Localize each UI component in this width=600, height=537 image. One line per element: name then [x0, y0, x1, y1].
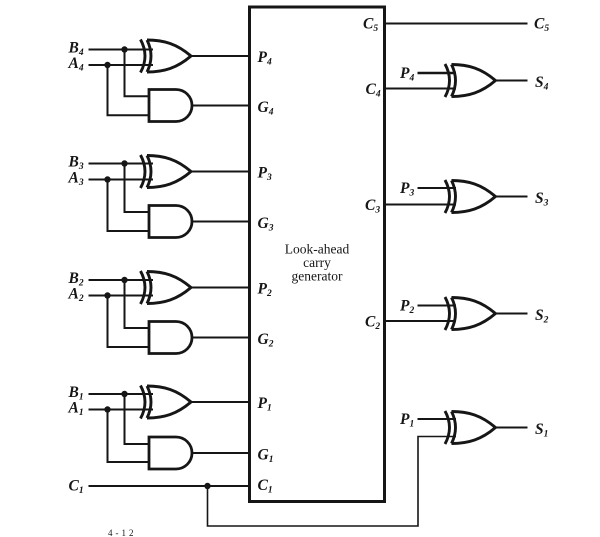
junction A4: [104, 62, 110, 68]
wire G1 to generator: [192, 452, 250, 454]
svg-text:C1: C1: [69, 478, 84, 497]
and gate (G4 = A4 and B4): [149, 90, 192, 122]
svg-text:S3: S3: [535, 190, 549, 209]
wire A1: [89, 409, 154, 411]
svg-text:C5: C5: [534, 16, 549, 35]
junction A2: [104, 292, 110, 298]
wire C2 to sum xor: [385, 320, 457, 322]
label: Look-ahead carry generator: [285, 242, 350, 284]
svg-text:P2: P2: [400, 298, 414, 317]
wire G4 to generator: [192, 105, 250, 107]
wire S1 output: [496, 427, 528, 429]
xor gate (S2 = P2 xor C2): [445, 297, 496, 330]
svg-text:P1: P1: [400, 411, 414, 430]
xor gate (S3 = P3 xor C3): [445, 180, 496, 213]
xor gate (P1 = A1 xor B1): [141, 386, 192, 419]
xor gate (S1 = P1 xor C1): [445, 411, 496, 444]
svg-text:P3: P3: [400, 180, 414, 199]
svg-text:S1: S1: [535, 421, 548, 440]
svg-text:generator: generator: [292, 269, 343, 284]
junction B3: [121, 160, 127, 166]
wire P3 stub to sum xor: [418, 187, 457, 189]
svg-text:G4: G4: [258, 99, 274, 118]
svg-text:4-12: 4-12: [108, 528, 137, 537]
svg-text:P3: P3: [258, 165, 272, 184]
svg-text:C3: C3: [365, 197, 380, 216]
wire P1 to generator: [191, 401, 250, 403]
wire A2: [89, 295, 154, 297]
xor gate (P3 = A3 xor B3): [141, 155, 192, 188]
and gate (G1 = A1 and B1): [149, 437, 192, 469]
svg-text:A3: A3: [68, 170, 84, 189]
wire A2 to AND2 input: [108, 296, 151, 348]
wire A3 to AND3 input: [108, 180, 151, 232]
wire S2 output: [496, 313, 528, 315]
svg-text:C2: C2: [365, 314, 380, 333]
svg-text:S2: S2: [535, 307, 549, 326]
junction B4: [121, 46, 127, 52]
xor gate (S4 = P4 xor C4): [445, 64, 496, 97]
svg-text:C5: C5: [363, 16, 378, 35]
svg-text:P4: P4: [400, 65, 414, 84]
wire P4 stub to sum xor: [418, 72, 457, 74]
wire P1 stub to sum xor: [418, 418, 457, 420]
svg-text:G2: G2: [258, 331, 274, 350]
wire S4 output: [496, 80, 528, 82]
svg-text:C4: C4: [366, 81, 381, 100]
wire B2: [89, 279, 154, 281]
junction A1: [104, 406, 110, 412]
wire C1 to sum xor S1: [208, 437, 457, 527]
svg-text:G1: G1: [258, 447, 274, 466]
and gate (G3 = A3 and B3): [149, 206, 192, 238]
svg-text:P2: P2: [258, 281, 272, 300]
xor gate (P4 = A4 xor B4): [141, 40, 192, 73]
svg-text:G3: G3: [258, 215, 274, 234]
svg-text:C1: C1: [258, 477, 273, 496]
wire A4 to AND4 input: [108, 65, 151, 115]
svg-text:P4: P4: [258, 49, 272, 68]
wire P4 to generator: [191, 55, 250, 57]
wire C4 to sum xor: [385, 88, 457, 90]
junction B1: [121, 391, 127, 397]
junction B2: [121, 277, 127, 283]
wire P2 to generator: [191, 287, 250, 289]
wire B4: [89, 49, 154, 51]
look-ahead carry generator U1: [250, 7, 385, 502]
svg-text:S4: S4: [535, 74, 549, 93]
wire B1 to AND1 input: [125, 394, 151, 444]
wire B4 to AND4 input: [125, 50, 151, 97]
wire G3 to generator: [192, 221, 250, 223]
junction C1: [204, 483, 210, 489]
xor gate (P2 = A2 xor B2): [141, 271, 192, 304]
wire C3 to sum xor: [385, 204, 457, 206]
wire A1 to AND1 input: [108, 410, 151, 463]
wire S3 output: [496, 196, 528, 198]
wire A4: [89, 64, 154, 66]
wire B3: [89, 163, 154, 165]
wire P3 to generator: [191, 171, 250, 173]
wire B3 to AND3 input: [125, 164, 151, 213]
junction A3: [104, 176, 110, 182]
wire B1: [89, 393, 154, 395]
wire C1: [89, 485, 250, 487]
wire A3: [89, 179, 154, 181]
wire C5 output: [385, 23, 528, 25]
and gate (G2 = A2 and B2): [149, 322, 192, 354]
svg-text:P1: P1: [258, 395, 272, 414]
wire B2 to AND2 input: [125, 280, 151, 328]
wire P2 stub to sum xor: [418, 305, 457, 307]
wire G2 to generator: [192, 337, 250, 339]
